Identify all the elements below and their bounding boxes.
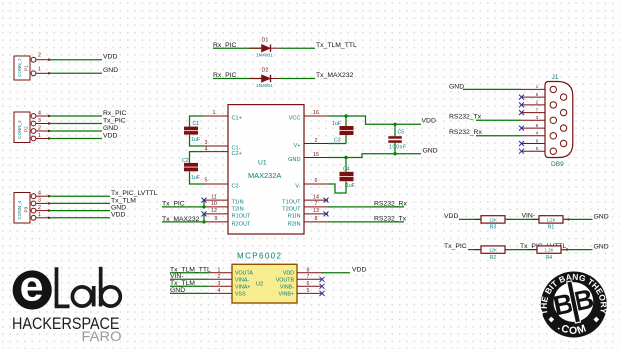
svg-text:1: 1 bbox=[38, 66, 41, 72]
J1 holes left column bbox=[550, 86, 567, 154]
svg-text:1: 1 bbox=[213, 110, 216, 116]
capacitor C4 bbox=[328, 158, 355, 194]
svg-text:VDD: VDD bbox=[103, 54, 117, 61]
svg-text:1uF: 1uF bbox=[346, 183, 355, 189]
svg-text:D1: D1 bbox=[262, 38, 269, 44]
svg-text:R1: R1 bbox=[548, 225, 555, 231]
svg-text:VINB+: VINB+ bbox=[279, 291, 294, 297]
svg-text:13: 13 bbox=[313, 208, 319, 214]
svg-text:VDD: VDD bbox=[444, 213, 458, 220]
capacitor C5 bbox=[388, 124, 406, 154]
wire Rx_PIC to D1 anode bbox=[213, 47, 261, 49]
wire P2 pin2 GND bbox=[49, 130, 102, 132]
resistor R2 bbox=[474, 249, 481, 251]
connector P2 CONN_4 bbox=[14, 110, 50, 142]
J1 holes right column bbox=[560, 94, 566, 100]
wire Tx_MAX232 to U1 pins 12,9 bbox=[162, 211, 207, 223]
svg-text:12K: 12K bbox=[489, 248, 497, 253]
wire C2 to pin5 bbox=[190, 172, 205, 185]
op-amp U2 body bbox=[232, 264, 297, 303]
svg-text:VIN-: VIN- bbox=[170, 273, 184, 280]
no-connect marks J1 unused pins bbox=[519, 95, 524, 154]
svg-text:RS232_Rx: RS232_Rx bbox=[449, 129, 482, 136]
svg-text:1uF: 1uF bbox=[191, 175, 200, 181]
svg-text:R1IN: R1IN bbox=[288, 213, 301, 219]
svg-text:12: 12 bbox=[211, 208, 217, 214]
svg-text:DB9: DB9 bbox=[551, 161, 564, 168]
svg-text:C3: C3 bbox=[334, 137, 341, 143]
svg-text:RS232_Tx: RS232_Tx bbox=[449, 114, 482, 121]
svg-text:4: 4 bbox=[205, 146, 208, 152]
svg-text:VINA-: VINA- bbox=[235, 277, 249, 283]
svg-text:GND: GND bbox=[103, 125, 118, 132]
resistor R1 bbox=[532, 218, 539, 220]
wire VDD to R3 bbox=[459, 218, 481, 220]
wire Tx_TLM to U2 pin3 bbox=[170, 285, 209, 287]
wire R2 to R4 node Tx_PIC_LVTTL bbox=[505, 249, 537, 251]
svg-text:1.2K: 1.2K bbox=[544, 248, 553, 253]
svg-text:1: 1 bbox=[38, 133, 41, 139]
svg-text:T1IN: T1IN bbox=[232, 200, 244, 206]
svg-text:R3: R3 bbox=[490, 225, 497, 231]
svg-text:VDD: VDD bbox=[283, 271, 294, 277]
svg-text:V-: V- bbox=[295, 183, 300, 189]
svg-text:Tx_PIC: Tx_PIC bbox=[103, 117, 126, 124]
svg-text:C2-: C2- bbox=[232, 183, 241, 189]
wire P3 pin3 Tx_TLM bbox=[49, 202, 110, 204]
svg-text:RS232_Tx: RS232_Tx bbox=[374, 216, 407, 223]
svg-text:R2: R2 bbox=[490, 255, 497, 261]
svg-text:VOUTB: VOUTB bbox=[276, 277, 295, 283]
svg-text:1uF: 1uF bbox=[332, 121, 341, 127]
J1 pin numbers bbox=[536, 84, 539, 151]
no-connect mark pin 11 bbox=[202, 198, 207, 203]
U1 left pins bbox=[204, 116, 228, 222]
no-connect mark pin 12 bbox=[202, 211, 207, 216]
wire P3 pin1 VDD bbox=[49, 217, 110, 219]
wire P1 pin2 to VDD bbox=[49, 59, 102, 61]
svg-text:P2: P2 bbox=[24, 126, 29, 132]
wire Tx_TLM_TTL to U2 pin1 bbox=[170, 272, 209, 274]
svg-text:FARO: FARO bbox=[82, 329, 122, 344]
resistor R4 bbox=[530, 249, 537, 251]
star right bbox=[593, 317, 599, 323]
svg-text:R2IN: R2IN bbox=[288, 221, 301, 227]
svg-text:Tx_TLM: Tx_TLM bbox=[170, 280, 195, 287]
capacitor C3 bbox=[328, 116, 354, 144]
connector J1 DB9 body bbox=[545, 82, 573, 158]
U2 right pins bbox=[297, 273, 321, 294]
svg-text:1N4001: 1N4001 bbox=[256, 83, 273, 89]
svg-text:CONN_4: CONN_4 bbox=[17, 200, 22, 219]
wire R3 to R1 node VIN- bbox=[505, 218, 539, 220]
wire GND to U2 pin4 bbox=[170, 292, 209, 294]
connector P1 CONN_2 bbox=[14, 53, 50, 80]
svg-text:VDD: VDD bbox=[422, 118, 436, 125]
svg-text:VDD: VDD bbox=[352, 267, 366, 274]
svg-text:P3: P3 bbox=[24, 206, 29, 212]
svg-text:1uF: 1uF bbox=[191, 137, 200, 143]
svg-text:VDD: VDD bbox=[103, 132, 117, 139]
svg-text:5: 5 bbox=[205, 178, 208, 184]
wire VCC rail to VDD bbox=[328, 114, 436, 126]
svg-text:R4: R4 bbox=[546, 255, 553, 261]
svg-text:7: 7 bbox=[315, 201, 318, 207]
U2 pin numbers bbox=[218, 267, 310, 294]
U2 left pins bbox=[209, 273, 232, 294]
svg-text:GND: GND bbox=[594, 214, 609, 221]
U1 pin numbers bbox=[205, 110, 319, 222]
svg-text:C2: C2 bbox=[182, 158, 189, 164]
wire U1 pin8 to RS232_Tx bbox=[328, 221, 404, 223]
svg-text:1.2K: 1.2K bbox=[546, 217, 555, 222]
wire Tx_PIC to R2 bbox=[468, 249, 481, 251]
wire D2 cathode to Tx_MAX232 bbox=[280, 78, 316, 80]
op-amp U1 MAX232A body bbox=[228, 105, 304, 234]
svg-text:D2: D2 bbox=[262, 68, 269, 74]
svg-text:16: 16 bbox=[313, 110, 319, 116]
svg-text:12K: 12K bbox=[489, 217, 497, 222]
wire C1 to pin3 bbox=[190, 135, 205, 146]
diode D1 bbox=[262, 45, 271, 52]
svg-text:RS232_Rx: RS232_Rx bbox=[374, 201, 407, 208]
svg-text:VIN-: VIN- bbox=[522, 213, 536, 220]
wire RS232_Rx to J1 pin4 bbox=[476, 135, 521, 137]
svg-text:14: 14 bbox=[313, 194, 319, 200]
svg-text:J1: J1 bbox=[552, 74, 559, 81]
wire Rx_PIC to D2 anode bbox=[213, 78, 261, 80]
svg-text:U2: U2 bbox=[256, 281, 263, 287]
svg-text:Tx_PIC_LVTTL: Tx_PIC_LVTTL bbox=[111, 190, 158, 197]
svg-text:2: 2 bbox=[38, 125, 41, 131]
svg-text:1: 1 bbox=[218, 267, 221, 273]
svg-text:4: 4 bbox=[38, 191, 41, 197]
svg-text:U1: U1 bbox=[258, 160, 267, 167]
svg-text:VINB-: VINB- bbox=[280, 284, 294, 290]
svg-text:C1: C1 bbox=[193, 121, 200, 127]
U2 pin names bbox=[235, 271, 253, 298]
star left bbox=[548, 317, 554, 323]
svg-text:CONN_4: CONN_4 bbox=[17, 120, 22, 139]
no-connect mark U2 pin7 bbox=[320, 277, 325, 282]
svg-text:CONN_2: CONN_2 bbox=[17, 58, 22, 77]
wire V+ pin2 bbox=[328, 143, 346, 145]
connector P3 CONN_4 bbox=[14, 191, 50, 224]
thebitbangtheory.com logo bbox=[539, 272, 609, 338]
svg-text:Tx_MAX232: Tx_MAX232 bbox=[316, 72, 354, 79]
svg-text:GND: GND bbox=[111, 205, 126, 212]
capacitor C1 bbox=[184, 116, 204, 146]
svg-text:GND: GND bbox=[594, 243, 609, 250]
eLab hackerspace logo bbox=[12, 263, 122, 344]
svg-text:GND: GND bbox=[288, 157, 300, 163]
wire P2 pin1 VDD bbox=[49, 138, 102, 140]
wire VIN- to U2 pin2 bbox=[170, 278, 209, 280]
wire D1 cathode to Tx_TLM_TTL bbox=[280, 47, 316, 49]
no-connect mark U1 pin 13 bbox=[324, 211, 329, 216]
capacitor C2 bbox=[182, 152, 204, 184]
wire pin4 to C2 bbox=[190, 152, 205, 163]
svg-text:Tx_TLM: Tx_TLM bbox=[111, 197, 136, 204]
wire U1 pin7 to RS232_Rx bbox=[328, 206, 404, 208]
svg-text:C1+: C1+ bbox=[232, 115, 242, 121]
svg-text:T2OUT: T2OUT bbox=[282, 206, 301, 212]
no-connect mark U1 pin 14 bbox=[324, 198, 329, 203]
resistor R3 bbox=[474, 218, 481, 220]
svg-text:10: 10 bbox=[211, 201, 217, 207]
wire GND to J1 pin1 bbox=[463, 88, 521, 90]
svg-text:2: 2 bbox=[218, 274, 221, 280]
svg-text:11: 11 bbox=[211, 194, 217, 200]
svg-text:2: 2 bbox=[38, 205, 41, 211]
U1 right pins bbox=[304, 116, 328, 222]
svg-text:7: 7 bbox=[307, 274, 310, 280]
svg-text:VCC: VCC bbox=[289, 115, 301, 121]
svg-text:6: 6 bbox=[307, 281, 310, 287]
svg-text:15: 15 bbox=[313, 152, 319, 158]
svg-text:VINA+: VINA+ bbox=[235, 284, 250, 290]
wire P3 pin2 GND bbox=[49, 210, 110, 212]
svg-text:6: 6 bbox=[315, 178, 318, 184]
svg-text:T1OUT: T1OUT bbox=[282, 200, 301, 206]
svg-text:e: e bbox=[20, 263, 44, 311]
svg-text:C5: C5 bbox=[398, 130, 405, 136]
svg-text:V+: V+ bbox=[294, 143, 301, 149]
svg-text:2: 2 bbox=[315, 138, 318, 144]
wire P2 pin4 Rx_PIC bbox=[49, 115, 102, 117]
wire R4 to GND bbox=[561, 249, 593, 251]
svg-text:3: 3 bbox=[38, 198, 41, 204]
svg-text:R2OUT: R2OUT bbox=[232, 221, 252, 227]
svg-text:3: 3 bbox=[38, 118, 41, 124]
J1 pin stubs bbox=[521, 89, 545, 151]
svg-text:VSS: VSS bbox=[235, 291, 246, 297]
svg-text:4: 4 bbox=[218, 288, 221, 294]
diode D2 row bbox=[213, 68, 354, 90]
svg-text:1N4001: 1N4001 bbox=[256, 53, 273, 59]
svg-text:C2+: C2+ bbox=[232, 151, 242, 157]
svg-text:T2IN: T2IN bbox=[232, 206, 244, 212]
wire pin1 to C1 bbox=[190, 116, 205, 127]
diode D1 row bbox=[213, 38, 357, 59]
svg-text:MCP6002: MCP6002 bbox=[237, 252, 282, 261]
wire P3 pin4 Tx_PIC_LVTTL bbox=[49, 195, 110, 197]
wire GND rail bbox=[328, 148, 438, 160]
svg-text:3: 3 bbox=[218, 281, 221, 287]
svg-text:Rx_PIC: Rx_PIC bbox=[103, 110, 127, 117]
svg-text:5: 5 bbox=[307, 288, 310, 294]
svg-text:R1OUT: R1OUT bbox=[232, 213, 252, 219]
wire Tx_PIC to U1 pins 11,10 bbox=[162, 198, 207, 209]
svg-text:100nF: 100nF bbox=[389, 144, 407, 150]
wire R1 to GND bbox=[563, 218, 593, 220]
wire P1 pin1 to GND bbox=[49, 72, 102, 74]
U1 pin names bbox=[232, 115, 252, 227]
svg-text:Tx_PIC: Tx_PIC bbox=[444, 243, 467, 250]
svg-text:8: 8 bbox=[315, 216, 318, 222]
svg-text:VDD: VDD bbox=[111, 212, 125, 219]
no-connect mark U2 pin6 bbox=[320, 284, 325, 289]
svg-text:GND: GND bbox=[449, 84, 464, 91]
diode D2 bbox=[262, 75, 271, 82]
wire RS232_Tx to J1 pin3 bbox=[476, 119, 521, 121]
svg-text:MAX232A: MAX232A bbox=[248, 171, 281, 180]
svg-text:4: 4 bbox=[38, 110, 41, 116]
svg-text:2: 2 bbox=[38, 53, 41, 59]
svg-text:GND: GND bbox=[423, 148, 438, 155]
svg-text:8: 8 bbox=[307, 267, 310, 273]
wire U2 pin8 to VDD bbox=[321, 272, 350, 274]
svg-text:1: 1 bbox=[38, 212, 41, 218]
svg-text:GND: GND bbox=[170, 287, 185, 294]
wire P2 pin3 Tx_PIC bbox=[49, 123, 102, 125]
svg-text:VOUTA: VOUTA bbox=[235, 271, 253, 277]
svg-text:Tx_TLM_TTL: Tx_TLM_TTL bbox=[316, 42, 357, 49]
svg-text:9: 9 bbox=[215, 216, 218, 222]
svg-text:C4: C4 bbox=[343, 167, 350, 173]
svg-text:GND: GND bbox=[103, 67, 118, 74]
svg-text:3: 3 bbox=[205, 140, 208, 146]
svg-text:P1: P1 bbox=[24, 65, 29, 71]
no-connect mark U2 pin5 bbox=[320, 291, 325, 296]
